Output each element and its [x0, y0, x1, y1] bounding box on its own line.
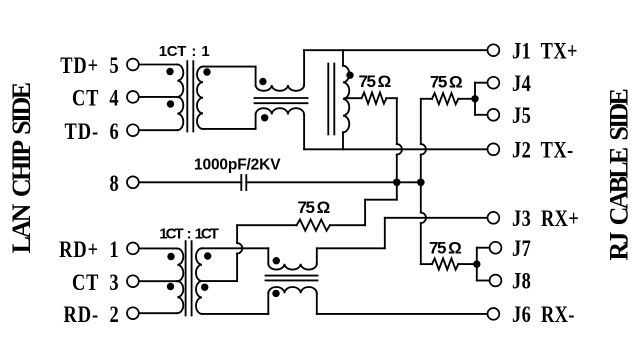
svg-text:J1 TX+: J1 TX+ [512, 37, 578, 64]
svg-text:J3 RX+: J3 RX+ [512, 205, 579, 232]
svg-text:CT 3: CT 3 [72, 269, 120, 296]
svg-text:75 Ω: 75 Ω [359, 72, 391, 91]
svg-text:LAN CHIP SIDE: LAN CHIP SIDE [7, 82, 36, 253]
svg-text:1CT : 1: 1CT : 1 [159, 43, 210, 60]
svg-text:RD- 2: RD- 2 [64, 301, 120, 328]
svg-text:RD+ 1: RD+ 1 [59, 236, 119, 263]
svg-text:75 Ω: 75 Ω [298, 198, 330, 217]
svg-text:J7: J7 [512, 235, 531, 262]
svg-text:1000pF/2KV: 1000pF/2KV [194, 156, 281, 173]
svg-text:J6 RX-: J6 RX- [512, 301, 575, 328]
svg-text:1CT : 1CT: 1CT : 1CT [159, 225, 218, 242]
svg-text:8: 8 [109, 170, 119, 197]
svg-text:75 Ω: 75 Ω [429, 238, 461, 257]
svg-text:TD- 6: TD- 6 [65, 118, 120, 145]
svg-text:J5: J5 [512, 102, 531, 129]
svg-text:CT 4: CT 4 [72, 85, 120, 112]
svg-text:RJ CABLE SIDE: RJ CABLE SIDE [605, 88, 634, 260]
svg-text:TD+ 5: TD+ 5 [60, 52, 119, 79]
svg-text:J2 TX-: J2 TX- [512, 136, 574, 163]
svg-text:J4: J4 [512, 70, 531, 97]
svg-text:75 Ω: 75 Ω [430, 72, 462, 91]
svg-text:J8: J8 [512, 268, 531, 295]
